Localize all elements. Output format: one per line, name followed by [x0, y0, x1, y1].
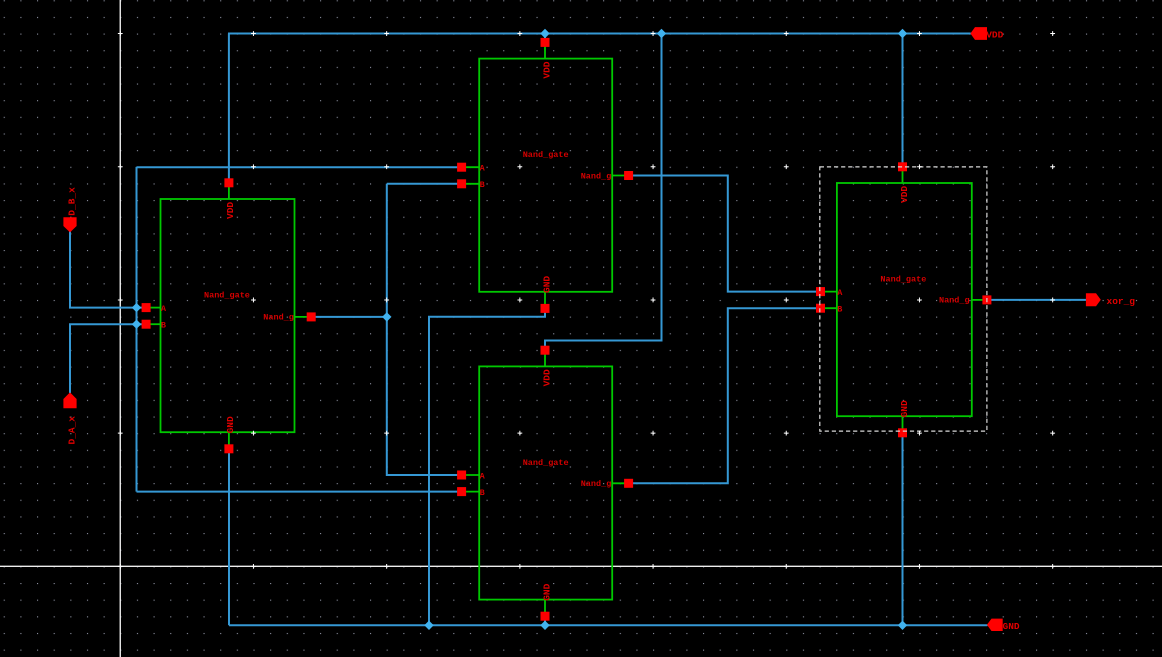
svg-text:D_B_x: D_B_x [66, 187, 77, 216]
junction I0 output [382, 312, 391, 321]
svg-text:D_A_x: D_A_x [66, 416, 77, 445]
svg-text:GND: GND [1003, 621, 1020, 632]
X axis (horizontal origin line) [0, 565, 1162, 567]
wire junction to I1 B [387, 183, 462, 185]
wire input D_B_x to I0 A [70, 231, 146, 308]
wire I2 output to I3 B [629, 308, 821, 483]
I2 pin Nand_g (output) [624, 479, 633, 488]
svg-text:A: A [837, 288, 843, 298]
pin VDD (top-right) [970, 27, 1003, 40]
wire VDD rail to I3 VDD [902, 34, 904, 167]
I0 pin Nand_g (output) [307, 312, 316, 321]
svg-text:VDD: VDD [899, 186, 910, 203]
pin D_B_x (input, top-left) [63, 187, 77, 233]
I0 pin GND [224, 444, 233, 453]
wire I3 output to xor_g pin [987, 299, 1086, 301]
I0 pin A [142, 303, 151, 312]
selection bounding box of instance I3 (dashed) [820, 167, 987, 431]
wire to I2 B [137, 491, 462, 493]
I3 pin Nand_g (output) [982, 295, 991, 304]
I3 pin VDD [898, 162, 907, 171]
svg-text:B: B [161, 321, 166, 331]
junction input D_A_x / I0 B / bus [132, 320, 141, 329]
wire GND rail (bottom) [229, 624, 988, 626]
I2 pin GND [541, 612, 550, 621]
svg-text:Nand_gate: Nand_gate [880, 275, 926, 285]
wire I3 GND to GND rail [902, 432, 904, 625]
wire I1 GND down to GND rail [429, 308, 545, 625]
major grid points (sparkles) [118, 31, 1055, 569]
svg-text:A: A [161, 304, 167, 314]
svg-text:VDD: VDD [541, 369, 552, 386]
I1 pin B [457, 179, 466, 188]
Y axis (vertical origin line) [119, 0, 121, 657]
wire to I1 A [137, 166, 462, 168]
junction VDD rail / I2 VDD branch [657, 29, 666, 38]
svg-text:GND: GND [899, 400, 910, 417]
I0 pin B [142, 320, 151, 329]
NAND gate instance I2 (Nand_gate) [457, 346, 633, 621]
junction VDD rail / I3 VDD [898, 29, 907, 38]
svg-text:B: B [837, 305, 842, 315]
I2 pin VDD [541, 346, 550, 355]
svg-text:VDD: VDD [225, 202, 236, 219]
svg-text:Nand_g: Nand_g [939, 296, 970, 306]
svg-text:Nand_gate: Nand_gate [204, 291, 250, 301]
svg-text:Nand_g: Nand_g [581, 171, 612, 181]
svg-text:Nand_g: Nand_g [263, 313, 294, 323]
I3 pin B [816, 304, 825, 313]
svg-text:A: A [480, 164, 486, 174]
wire input bus vertical (A/B feed) [136, 167, 138, 492]
svg-text:B: B [480, 180, 485, 190]
svg-text:B: B [480, 488, 485, 498]
svg-text:Nand_gate: Nand_gate [523, 458, 569, 468]
junction GND rail / I2 GND [540, 621, 549, 630]
I3 pin A [816, 287, 825, 296]
svg-text:VDD: VDD [986, 29, 1003, 40]
wire I0 output to junction [311, 316, 387, 318]
wire VDD rail to I1 VDD [544, 34, 546, 43]
svg-text:xor_g: xor_g [1107, 296, 1136, 307]
NAND gate instance I1 (Nand_gate) [457, 38, 633, 313]
svg-text:VDD: VDD [541, 61, 552, 78]
I2 pin A [457, 471, 466, 480]
wire I2 GND to GND rail [544, 616, 546, 626]
svg-text:Nand_gate: Nand_gate [523, 150, 569, 160]
svg-text:GND: GND [225, 416, 236, 433]
I1 pin GND [541, 304, 550, 313]
junction GND rail / I1 GND branch [424, 621, 433, 630]
svg-text:GND: GND [541, 583, 552, 600]
wire junction down to I2 A [387, 184, 462, 475]
wire input D_A_x to I0 B [70, 324, 146, 393]
wire I0 GND to GND rail [228, 448, 230, 625]
I3 pin GND [898, 428, 907, 437]
NAND gate instance I3 (Nand_gate) [816, 162, 991, 437]
wire VDD rail (top) [228, 33, 971, 35]
I1 pin Nand_g (output) [624, 171, 633, 180]
I1 pin VDD [541, 38, 550, 47]
junction input D_B_x / I0 A / bus [132, 303, 141, 312]
svg-text:GND: GND [541, 276, 552, 293]
I1 pin A [457, 163, 466, 172]
wire VDD rail to I0 VDD [228, 34, 230, 184]
wire VDD rail to I2 VDD [545, 34, 662, 351]
svg-text:A: A [480, 471, 486, 481]
svg-text:Nand_g: Nand_g [581, 479, 612, 489]
I0 pin VDD [224, 178, 233, 187]
junction GND rail / I3 GND [898, 621, 907, 630]
junction VDD rail / I1 VDD [540, 29, 549, 38]
pin xor_g (output, right) [1086, 293, 1135, 307]
pin GND (bottom-right) [987, 619, 1020, 632]
I2 pin B [457, 487, 466, 496]
wire I1 output to I3 A [629, 176, 821, 292]
pin D_A_x (input, bottom-left) [63, 392, 77, 444]
NAND gate instance I0 (Nand_gate) [142, 178, 316, 453]
